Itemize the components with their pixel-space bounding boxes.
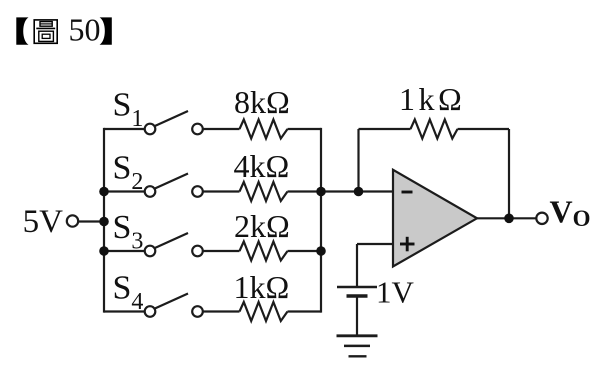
svg-text:1kΩ: 1kΩ [399, 81, 465, 117]
svg-text:1V: 1V [376, 275, 415, 310]
svg-text:4kΩ: 4kΩ [234, 148, 290, 184]
svg-text:2kΩ: 2kΩ [234, 208, 290, 244]
svg-text:8kΩ: 8kΩ [234, 84, 290, 120]
svg-text:5V: 5V [23, 204, 64, 240]
svg-text:1kΩ: 1kΩ [234, 269, 290, 305]
svg-text:50: 50 [69, 12, 101, 48]
